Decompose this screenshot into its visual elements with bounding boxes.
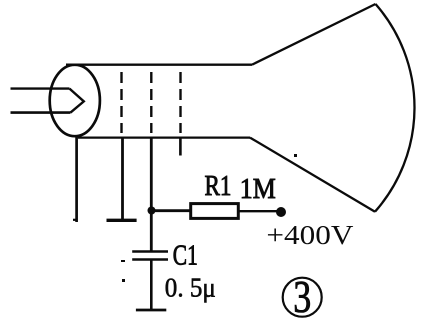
- svg-text:3: 3: [293, 271, 311, 322]
- svg-text:0. 5μ: 0. 5μ: [165, 272, 216, 302]
- node: anode junction dot: [148, 207, 156, 215]
- wire: input lead bottom: [11, 111, 71, 114]
- grid 1 lead wire: [121, 137, 124, 220]
- speckle near bell bottom: [294, 154, 297, 157]
- CRT bell bottom diagonal: [250, 138, 375, 212]
- cathode lead wire (down from ellipse): [75, 136, 78, 222]
- wire: capacitor to ground: [150, 261, 153, 310]
- speckle left of capacitor label: [121, 260, 125, 262]
- svg-text:R1: R1: [205, 171, 232, 202]
- speckle below: [122, 279, 125, 282]
- wire: input lead top: [11, 87, 70, 89]
- svg-text:+400V: +400V: [266, 220, 354, 250]
- capacitor C1 bottom plate: [132, 258, 168, 261]
- svg-text:1M: 1M: [240, 174, 276, 205]
- resistor R1 body: [191, 204, 239, 219]
- wire: resistor to terminal: [238, 210, 278, 212]
- CRT neck cylinder top line: [66, 64, 252, 66]
- cathode lead bottom tick: [73, 219, 77, 221]
- grid 2 lead wire (to anode node): [150, 137, 153, 251]
- svg-text:C1: C1: [173, 239, 198, 271]
- terminal dot +400V: [276, 207, 286, 217]
- CRT neck cylinder bottom line: [78, 136, 250, 138]
- figure number circle: [283, 278, 322, 317]
- ground: [136, 309, 166, 312]
- wire: node to resistor R1: [152, 209, 191, 212]
- ground bar (grid 1): [107, 219, 137, 222]
- grid electrode 3 (dashed): [179, 72, 181, 133]
- grid electrode 2 (dashed): [150, 72, 152, 133]
- grid 3 lead stub: [179, 137, 182, 156]
- grid electrode 1 (dashed): [120, 72, 122, 133]
- electron gun arrow: [70, 89, 84, 113]
- capacitor C1 top plate: [132, 250, 168, 253]
- CRT bell top diagonal: [252, 4, 376, 65]
- CRT tube face ellipse (gun end): [50, 65, 100, 136]
- CRT screen arc: [375, 4, 415, 212]
